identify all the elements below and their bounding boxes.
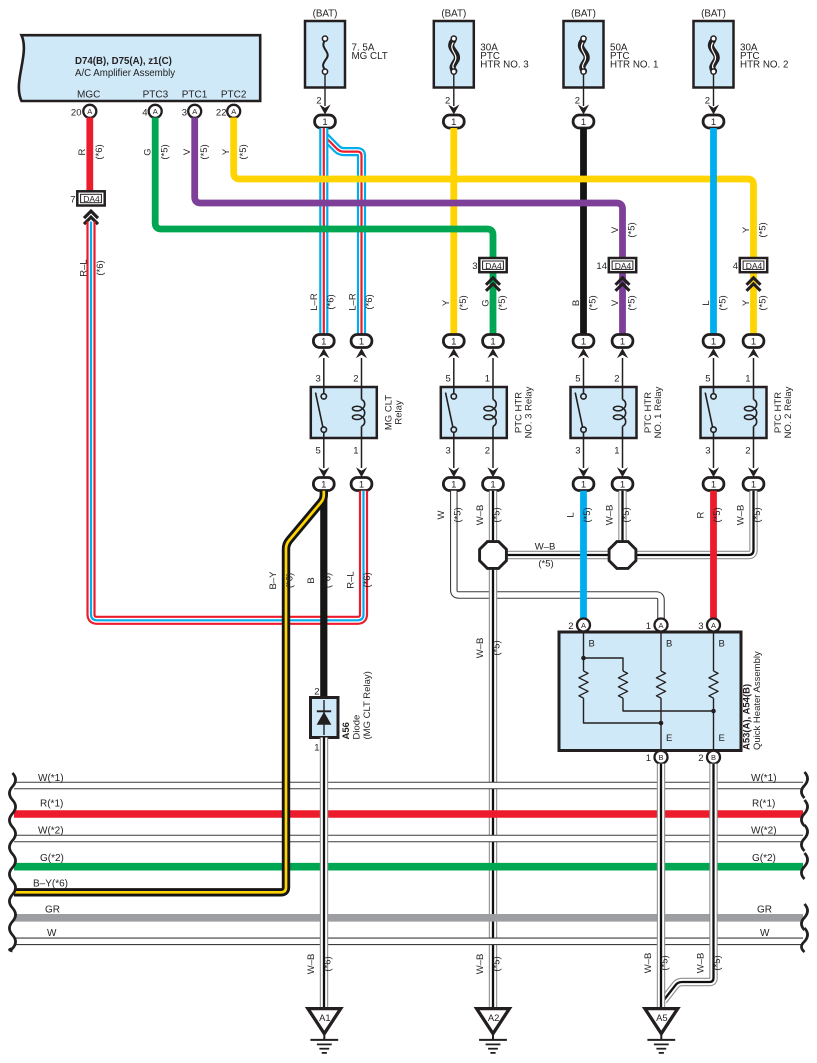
connector 7 DA4 — [70, 191, 104, 224]
ground A1 — [308, 1009, 341, 1053]
svg-text:W(*2): W(*2) — [38, 826, 64, 837]
svg-text:1: 1 — [614, 446, 619, 457]
svg-text:NO. 2 Relay: NO. 2 Relay — [783, 386, 794, 438]
svg-text:1: 1 — [359, 479, 364, 490]
svg-text:1: 1 — [581, 336, 586, 347]
svg-text:R–L: R–L — [346, 571, 357, 588]
wire Y from PTC2 pin 22 — [221, 118, 768, 336]
svg-text:(*6): (*6) — [323, 956, 334, 971]
svg-text:1: 1 — [451, 479, 456, 490]
relay MG CLT — [311, 335, 405, 491]
svg-text:A: A — [581, 621, 586, 630]
pin 22 PTC2 connector A — [216, 105, 240, 119]
pin 1 quick heater connector A — [646, 619, 668, 632]
svg-text:1: 1 — [451, 336, 456, 347]
svg-text:L: L — [566, 512, 577, 517]
svg-text:W–B: W–B — [605, 505, 616, 526]
connector 4 DA4 — [733, 258, 767, 291]
svg-text:GR: GR — [45, 905, 60, 916]
svg-text:V: V — [610, 226, 621, 233]
svg-text:1: 1 — [321, 479, 326, 490]
svg-text:5: 5 — [316, 446, 321, 457]
svg-text:A: A — [231, 107, 236, 116]
svg-text:1: 1 — [451, 117, 456, 128]
bus wire W — [14, 928, 803, 941]
svg-text:1: 1 — [314, 743, 319, 754]
svg-text:3: 3 — [316, 374, 321, 385]
wire W-B from PTC HTR NO.1 relay pin 1 to junction J2 — [605, 491, 633, 543]
ground A5 — [645, 1009, 678, 1053]
diode A56 MG CLT relay — [311, 671, 373, 753]
svg-text:3: 3 — [575, 446, 580, 457]
svg-text:Diode: Diode — [351, 715, 362, 740]
wire W-B from quick heater pin 2 to ground A5 — [664, 764, 724, 1001]
fuse 30A PTC HTR NO.3 — [434, 9, 529, 129]
svg-text:2: 2 — [575, 96, 580, 107]
svg-text:7: 7 — [70, 195, 75, 206]
svg-text:W–B: W–B — [475, 505, 486, 526]
svg-text:(*5): (*5) — [238, 144, 249, 159]
wire L from PTC HTR NO.1 relay pin 3 to quick heater pin 2 — [566, 491, 594, 619]
svg-text:(BAT): (BAT) — [571, 9, 596, 20]
svg-text:B: B — [719, 639, 725, 650]
svg-text:A/C Amplifier Assembly: A/C Amplifier Assembly — [75, 68, 175, 79]
svg-text:2: 2 — [445, 96, 450, 107]
pin 1 quick heater connector B — [646, 751, 668, 764]
svg-text:Y: Y — [221, 148, 232, 155]
svg-text:2: 2 — [698, 753, 703, 764]
svg-text:1: 1 — [581, 117, 586, 128]
wire V from PTC1 pin 3 — [182, 118, 637, 336]
svg-text:Y: Y — [441, 299, 452, 306]
svg-text:1: 1 — [581, 479, 586, 490]
svg-text:B: B — [658, 753, 663, 762]
svg-text:A: A — [87, 107, 92, 116]
svg-text:1: 1 — [321, 336, 326, 347]
svg-text:W(*1): W(*1) — [38, 773, 64, 784]
svg-text:(*5): (*5) — [660, 955, 671, 970]
svg-text:A: A — [192, 107, 197, 116]
fuse 50A PTC HTR NO.1 — [564, 9, 659, 129]
svg-text:W–B: W–B — [475, 954, 486, 975]
svg-text:2: 2 — [485, 446, 490, 457]
svg-text:4: 4 — [733, 261, 738, 272]
svg-text:(*5): (*5) — [582, 507, 593, 522]
svg-text:1: 1 — [620, 479, 625, 490]
svg-text:(*6): (*6) — [95, 260, 106, 275]
svg-text:A56: A56 — [341, 722, 352, 739]
svg-text:2: 2 — [745, 446, 750, 457]
svg-text:2: 2 — [316, 96, 321, 107]
svg-text:14: 14 — [596, 261, 607, 272]
resistor quick heater 1 — [579, 671, 661, 723]
svg-text:(BAT): (BAT) — [441, 9, 466, 20]
svg-text:D74(B), D75(A), z1(C): D74(B), D75(A), z1(C) — [75, 56, 172, 67]
svg-text:(*6): (*6) — [94, 144, 105, 159]
svg-text:MGC: MGC — [77, 90, 100, 101]
wire Y from fuse 30A PTC HTR NO.3 to relay — [441, 128, 469, 335]
svg-text:(*5): (*5) — [621, 507, 632, 522]
svg-text:1: 1 — [322, 117, 327, 128]
svg-text:(*5): (*5) — [627, 222, 638, 237]
cable break left — [9, 773, 15, 951]
svg-text:(MG CLT Relay): (MG CLT Relay) — [362, 671, 373, 739]
svg-text:HTR NO. 1: HTR NO. 1 — [610, 60, 658, 71]
bus wire R(*1) — [14, 799, 803, 815]
fuse 7.5A MG CLT — [305, 9, 388, 129]
svg-text:4: 4 — [142, 107, 147, 118]
svg-text:(*5): (*5) — [492, 640, 503, 655]
svg-text:2: 2 — [353, 374, 358, 385]
svg-text:(*5): (*5) — [712, 507, 723, 522]
relay PTC HTR NO.2 — [701, 335, 795, 491]
svg-text:W–B: W–B — [643, 953, 654, 974]
svg-text:R: R — [696, 511, 707, 518]
svg-text:20: 20 — [71, 107, 82, 118]
svg-text:G(*2): G(*2) — [40, 853, 64, 864]
svg-text:W–B: W–B — [306, 954, 317, 975]
svg-text:B–Y(*6): B–Y(*6) — [33, 879, 68, 890]
junction J2 octagon — [609, 542, 636, 569]
svg-text:(*6): (*6) — [362, 572, 373, 587]
relay PTC HTR NO.3 — [441, 335, 535, 491]
pin 3 PTC1 connector A — [182, 105, 201, 119]
svg-text:1: 1 — [646, 753, 651, 764]
svg-text:A53(A), A54(B): A53(A), A54(B) — [741, 684, 752, 750]
resistor quick heater 3 — [656, 671, 665, 751]
svg-text:1: 1 — [485, 374, 490, 385]
svg-text:1: 1 — [359, 336, 364, 347]
svg-text:(BAT): (BAT) — [701, 9, 726, 20]
svg-text:22: 22 — [216, 107, 227, 118]
svg-text:(*5): (*5) — [758, 295, 769, 310]
svg-text:(*5): (*5) — [492, 507, 503, 522]
svg-text:NO. 3 Relay: NO. 3 Relay — [523, 386, 534, 438]
svg-text:G: G — [143, 148, 154, 155]
svg-text:5: 5 — [705, 374, 710, 385]
fuse 30A PTC HTR NO.2 — [694, 9, 789, 129]
svg-text:(*5): (*5) — [159, 144, 170, 159]
svg-text:A2: A2 — [488, 1012, 499, 1023]
svg-text:B: B — [589, 639, 595, 650]
svg-text:GR: GR — [757, 905, 772, 916]
svg-text:(*6): (*6) — [326, 294, 337, 309]
svg-text:W: W — [436, 510, 447, 519]
wire R-L from MG CLT relay pin 1 to connector DA4 — [78, 222, 373, 621]
cable break right W(*1) — [801, 772, 807, 798]
connector 14 DA4 — [596, 258, 636, 291]
svg-text:1: 1 — [490, 479, 495, 490]
svg-text:G(*2): G(*2) — [752, 853, 776, 864]
svg-text:W–B: W–B — [736, 505, 747, 526]
svg-text:DA4: DA4 — [485, 261, 502, 271]
svg-text:1: 1 — [353, 446, 358, 457]
wire B-Y from MG CLT relay pin 5 to bus — [14, 491, 324, 893]
svg-text:B: B — [711, 753, 716, 762]
svg-text:R–L: R–L — [78, 259, 89, 276]
wire W from PTC HTR NO.3 relay pin 3 to quick heater pin 1 — [436, 491, 661, 619]
cable break right G(*2) — [801, 853, 807, 879]
svg-text:1: 1 — [490, 336, 495, 347]
svg-text:DA4: DA4 — [746, 261, 763, 271]
svg-text:Relay: Relay — [393, 400, 404, 425]
svg-text:B: B — [306, 577, 317, 583]
svg-text:L: L — [701, 300, 712, 305]
svg-text:PTC3: PTC3 — [143, 90, 169, 101]
cable break right W(*2) — [801, 825, 807, 851]
node quick heater E1 junction — [659, 721, 664, 726]
svg-text:W–B: W–B — [696, 953, 707, 974]
svg-text:(*5): (*5) — [627, 295, 638, 310]
pin 2 quick heater connector A — [568, 619, 590, 632]
svg-text:DA4: DA4 — [615, 261, 632, 271]
connector 3 DA4 — [472, 258, 506, 291]
svg-text:(*5): (*5) — [199, 144, 210, 159]
wire B from fuse 50A to PTC HTR NO.1 relay — [571, 128, 599, 335]
svg-text:W: W — [760, 928, 770, 939]
wire B from MG CLT relay pin 5 to diode — [306, 491, 334, 699]
svg-text:2: 2 — [568, 621, 573, 632]
wire L-R pair from fuse 7.5A to MG CLT relay — [309, 128, 375, 335]
svg-text:L–R: L–R — [348, 293, 359, 311]
svg-text:3: 3 — [472, 261, 477, 272]
svg-text:E: E — [719, 733, 725, 744]
svg-text:V: V — [610, 299, 621, 306]
svg-text:B: B — [666, 639, 672, 650]
junction J1 octagon — [480, 542, 507, 569]
svg-text:2: 2 — [314, 687, 319, 698]
resistor quick heater 4 — [709, 671, 718, 751]
svg-text:A: A — [658, 621, 663, 630]
svg-text:1: 1 — [711, 336, 716, 347]
svg-text:3: 3 — [705, 446, 710, 457]
bus wire W(*2) — [14, 826, 803, 839]
wire W-B from quick heater pin 1 to ground A5 — [643, 764, 671, 1008]
wire W-B from junction J1 to ground A2 — [475, 567, 503, 1008]
quick heater assembly A53(A) A54(B) — [559, 632, 763, 751]
wire W-B from PTC HTR NO.3 relay pin 2 to junction — [475, 491, 503, 543]
pin 4 PTC3 connector A — [142, 105, 161, 119]
svg-text:G: G — [480, 299, 491, 306]
svg-text:1: 1 — [620, 336, 625, 347]
node quick heater B2 junction — [581, 656, 586, 661]
svg-text:W(*1): W(*1) — [751, 773, 777, 784]
svg-text:2: 2 — [614, 374, 619, 385]
svg-text:PTC2: PTC2 — [221, 90, 247, 101]
cable break right W — [801, 928, 807, 952]
svg-text:A5: A5 — [656, 1012, 667, 1023]
svg-text:E: E — [666, 733, 672, 744]
svg-text:W(*2): W(*2) — [751, 826, 777, 837]
pin 2 quick heater connector B — [698, 751, 720, 764]
svg-text:(*5): (*5) — [752, 507, 763, 522]
svg-text:NO. 1 Relay: NO. 1 Relay — [653, 386, 664, 438]
svg-text:B–Y: B–Y — [268, 571, 279, 590]
svg-text:(*5): (*5) — [588, 295, 599, 310]
svg-text:(*6): (*6) — [285, 573, 296, 588]
svg-text:HTR NO. 3: HTR NO. 3 — [480, 60, 529, 71]
svg-text:(BAT): (BAT) — [313, 9, 338, 20]
svg-text:1: 1 — [751, 336, 756, 347]
cable break right R(*1) — [801, 800, 807, 826]
svg-text:(*5): (*5) — [453, 507, 464, 522]
svg-text:5: 5 — [575, 374, 580, 385]
svg-text:A: A — [711, 621, 716, 630]
svg-text:(*6): (*6) — [323, 573, 334, 588]
svg-text:Y: Y — [741, 226, 752, 233]
wire R from MGC pin 20 — [77, 118, 105, 192]
svg-text:(*5): (*5) — [458, 295, 469, 310]
svg-text:(*5): (*5) — [492, 956, 503, 971]
svg-text:(*5): (*5) — [718, 295, 729, 310]
pin 20 MGC connector A — [71, 105, 96, 119]
wire W-B from diode to ground A1 — [306, 738, 334, 1008]
wire R from PTC HTR NO.2 relay pin 3 to quick heater pin 3 — [696, 491, 724, 619]
svg-text:3: 3 — [446, 446, 451, 457]
svg-text:1: 1 — [745, 374, 750, 385]
svg-text:R(*1): R(*1) — [752, 799, 775, 810]
svg-text:Quick Heater Assembly: Quick Heater Assembly — [752, 651, 763, 750]
svg-text:(*5): (*5) — [712, 955, 723, 970]
svg-text:MG CLT: MG CLT — [352, 51, 388, 62]
svg-text:V: V — [182, 148, 193, 155]
resistor quick heater 2 — [618, 671, 713, 711]
svg-text:L–R: L–R — [309, 293, 320, 311]
svg-text:W–B: W–B — [535, 542, 556, 553]
svg-text:W–B: W–B — [475, 638, 486, 659]
svg-text:(*5): (*5) — [538, 559, 553, 570]
svg-text:R(*1): R(*1) — [40, 799, 63, 810]
svg-text:HTR NO. 2: HTR NO. 2 — [740, 60, 788, 71]
node quick heater E2 junction — [711, 709, 716, 714]
svg-text:Y: Y — [741, 299, 752, 306]
svg-text:2: 2 — [705, 96, 710, 107]
svg-text:1: 1 — [711, 479, 716, 490]
svg-text:(*5): (*5) — [497, 295, 508, 310]
ground A2 — [477, 1009, 510, 1053]
svg-text:R: R — [77, 148, 88, 155]
wire W-B junction J1 to junction J2 — [506, 542, 611, 570]
svg-text:1: 1 — [646, 621, 651, 632]
wire W-B from PTC HTR NO.2 relay pin 2 to junction J2 — [634, 491, 763, 555]
svg-text:DA4: DA4 — [83, 194, 100, 204]
svg-text:A: A — [153, 107, 158, 116]
wire G from PTC3 pin 4 — [143, 118, 508, 336]
svg-text:A1: A1 — [319, 1012, 330, 1023]
cable break right GR — [801, 904, 807, 930]
svg-text:B: B — [571, 300, 582, 306]
bus wire W(*1) — [14, 773, 803, 786]
svg-text:W: W — [47, 928, 57, 939]
svg-text:5: 5 — [446, 374, 451, 385]
svg-text:3: 3 — [182, 107, 187, 118]
svg-text:(*6): (*6) — [364, 294, 375, 309]
bus wire G(*2) — [14, 853, 803, 867]
pin 3 quick heater connector A — [698, 619, 720, 632]
svg-text:(*5): (*5) — [758, 222, 769, 237]
A/C amplifier assembly D74(B) D75(A) z1(C) — [19, 35, 260, 101]
svg-text:3: 3 — [698, 621, 703, 632]
svg-text:PTC1: PTC1 — [182, 90, 208, 101]
wire L from fuse 30A PTC HTR NO.2 — [701, 128, 729, 335]
svg-text:1: 1 — [711, 117, 716, 128]
svg-text:1: 1 — [751, 479, 756, 490]
relay PTC HTR NO.1 — [571, 335, 665, 491]
bus wire GR — [14, 905, 803, 918]
